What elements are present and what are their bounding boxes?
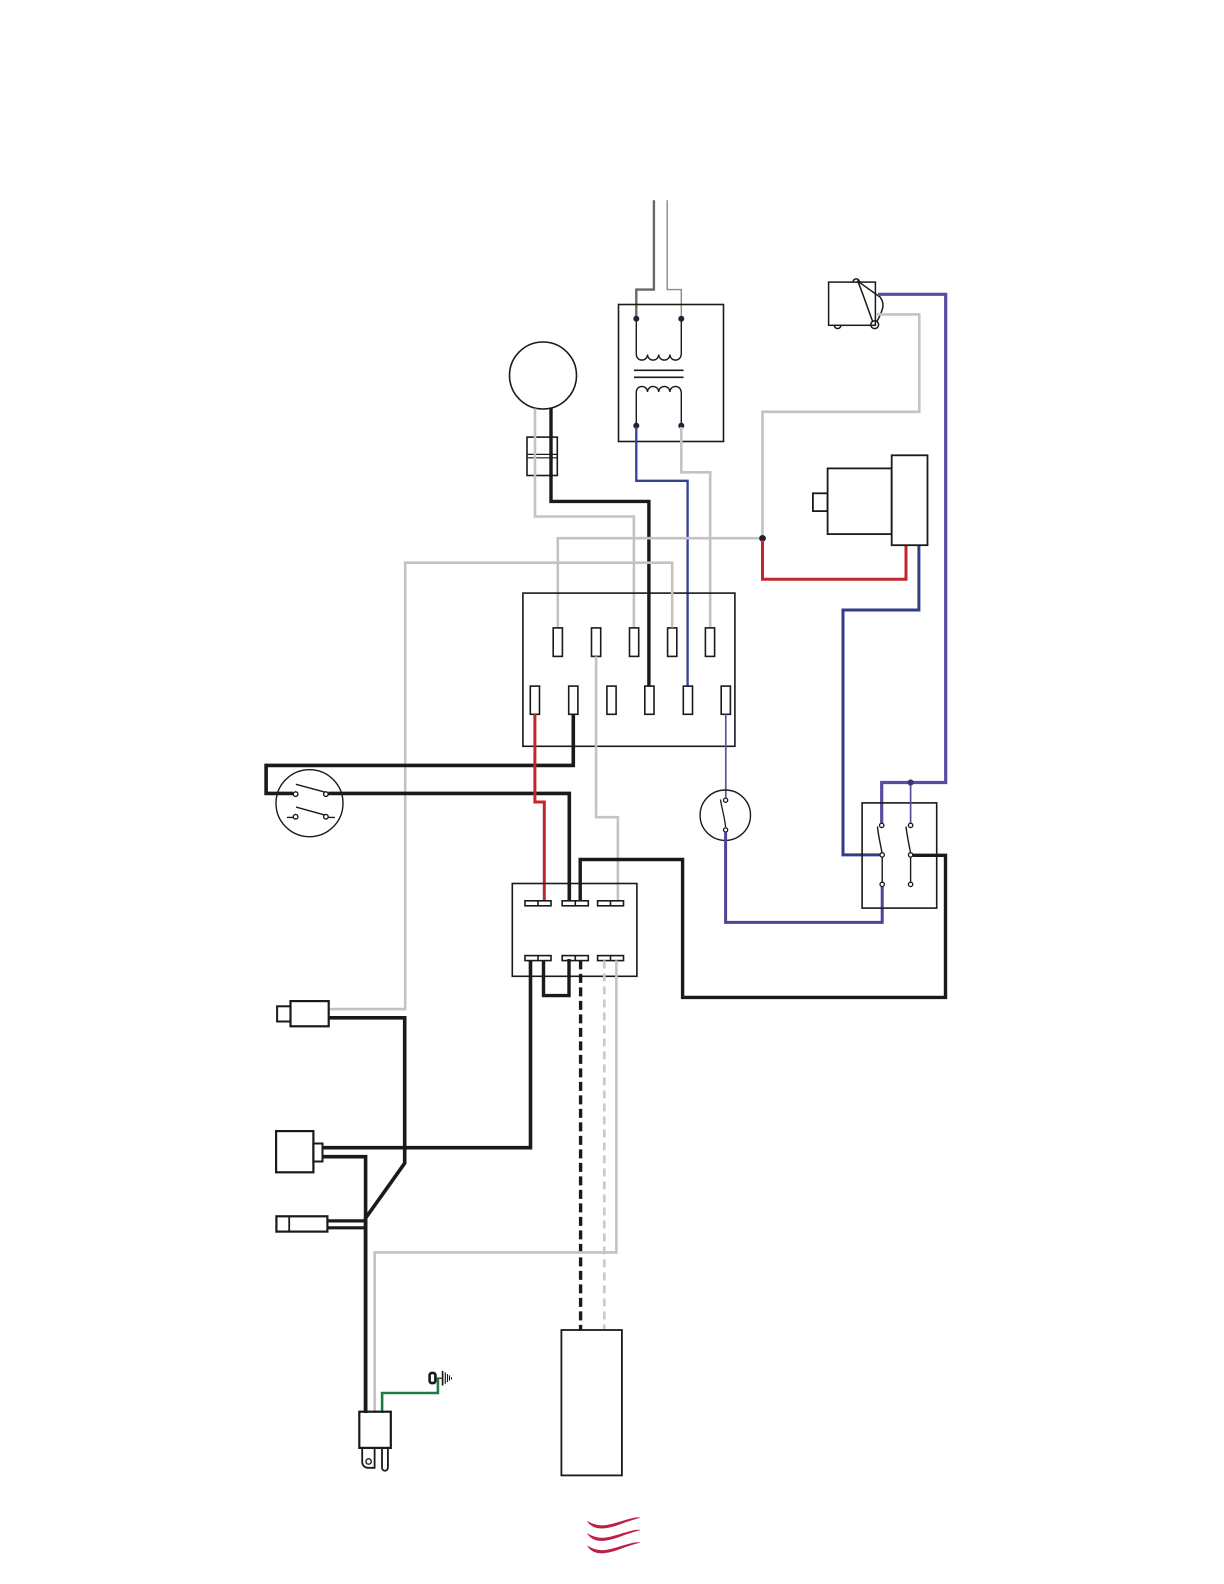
wire: gray terminal board pin T1 to red junction [558, 538, 761, 630]
wire: gray from gauge to terminal board pin T3 [535, 409, 634, 631]
motor shaft nub [813, 493, 828, 511]
wire: gray from transformer secondary to terminal board pin T5 [681, 427, 710, 630]
wire: black jumper loop under relay [544, 959, 570, 996]
wire: 120V supply neutral lead [667, 200, 681, 316]
gauge terminal block [527, 437, 557, 475]
wire: red from junction to motor [763, 540, 907, 579]
wire: blue from transformer secondary to terminal board pin B5 [636, 427, 687, 688]
fan switch junction dot [908, 779, 914, 785]
wire: black gas valve lower lead [323, 1157, 366, 1218]
wire: black pin B2 through rotary switch to relay block pin 2 [266, 714, 573, 793]
ground symbol screw [430, 1373, 436, 1383]
relay block (lower block) [512, 884, 637, 977]
fan switch thin purple branch [910, 783, 912, 823]
transformer terminal dots [633, 316, 639, 322]
power plug body [359, 1412, 391, 1448]
transformer core [634, 370, 684, 377]
junction dot red/gray [759, 535, 766, 542]
motor end cap [892, 455, 928, 545]
wire: gray pass-through from pin T2 to relay block pin 3 [596, 656, 618, 902]
wire: black relay pin to gas valve connector [323, 960, 531, 1147]
transformer primary winding [636, 319, 681, 360]
wire: gray relay to plug [375, 960, 617, 1413]
terminal pins bottom row B1-B6 [530, 686, 730, 714]
terminal pins top row T1-T5 [553, 628, 714, 657]
ground symbol lead and bars [437, 1377, 442, 1379]
relay top pin pair 1 [525, 901, 624, 906]
wire: black sail switch leads [327, 1221, 365, 1228]
wire: black fan switch to relay block pin 2 loop [580, 855, 945, 997]
transformer secondary winding [636, 386, 681, 425]
wire: red pin B1 to relay block pin 1 [535, 714, 544, 902]
limit switch box (bottom) [561, 1330, 622, 1475]
wire: black spark connector down to common [329, 1018, 405, 1413]
wire: green ground wire [382, 1378, 438, 1413]
wire: dashed gray relay to limit box [603, 960, 606, 1330]
wire: thin purple pin B6 to pressure switch [725, 714, 727, 798]
connector: gas valve [276, 1131, 313, 1172]
motor M1 body [828, 468, 892, 534]
wire: dashed black relay to limit box [579, 960, 582, 1330]
wire: long gray pin T4 to spark connector [330, 563, 672, 1009]
wire: black rotary switch to relay block pin 2 [328, 793, 569, 902]
connector: spark electrode [291, 1001, 329, 1026]
plug hot prong [382, 1448, 388, 1471]
wire: purple from buzzer to fan switch feed [878, 294, 946, 823]
plug neutral prong with hole [362, 1448, 374, 1468]
logo waves [587, 1517, 641, 1553]
pressure switch blade [720, 800, 725, 828]
gauge (clock) [510, 342, 577, 409]
wire: gray from buzzer to red junction [763, 314, 920, 536]
rotary switch stubs [287, 816, 335, 818]
fan switch box [862, 803, 937, 908]
relay bottom pin pairs [525, 956, 624, 961]
pressure switch circle [700, 790, 750, 840]
wire: blue from motor to fan switch [843, 546, 919, 855]
wire: black into plug [364, 1218, 368, 1413]
wire: black from gauge to terminal board pin B4 [551, 408, 649, 689]
fan switch blades and poles [877, 827, 882, 883]
wire: purple pressure switch to fan switch lower contact [726, 832, 883, 922]
terminal board (upper block) [523, 593, 735, 746]
fan switch contacts right pole [908, 823, 912, 886]
fan switch contacts left pole [880, 823, 885, 886]
rotary switch blades [296, 784, 325, 815]
wire: 120V supply hot lead [636, 200, 654, 316]
transformer T1 box [619, 305, 724, 442]
rotary switch (thermostat) [276, 770, 343, 837]
buzzer (igniter box) [829, 279, 883, 329]
connector: sail switch [276, 1216, 327, 1231]
